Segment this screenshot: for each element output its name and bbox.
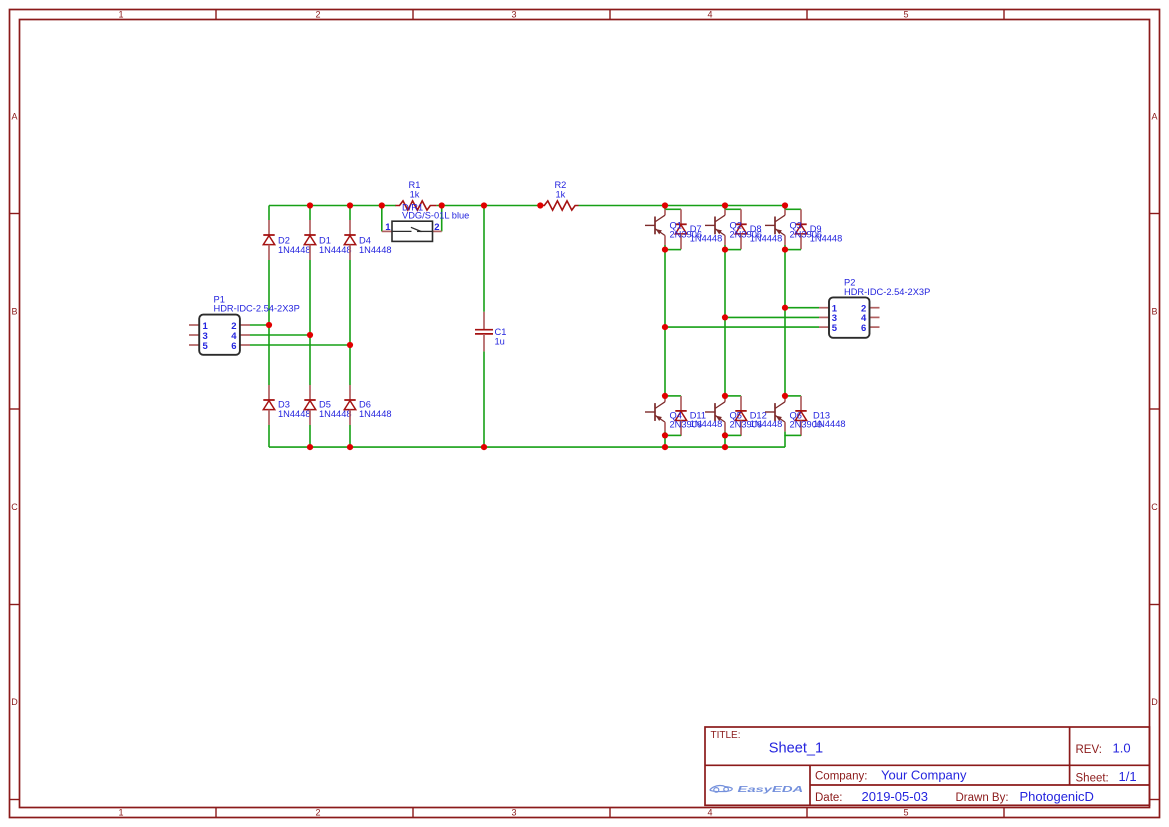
svg-text:1N4448: 1N4448: [319, 245, 352, 255]
junction bottom group bottom node column2: [722, 432, 728, 438]
junction top bus at switch right: [439, 202, 445, 208]
wire Q3 group top branch: [785, 208, 801, 210]
resistor R1 1k: [396, 201, 437, 210]
wire column2 to bottom bus: [724, 435, 726, 447]
junction bottom bus at column1: [662, 444, 668, 450]
label D13: [813, 411, 846, 429]
svg-text:EasyEDA: EasyEDA: [738, 784, 804, 794]
wire rail2 middle: [309, 260, 311, 385]
transistor Q6 2N3906: [765, 396, 785, 436]
wire rail2 lower: [309, 425, 311, 447]
svg-text:TITLE:: TITLE:: [711, 730, 741, 741]
label D11: [690, 411, 723, 429]
svg-text:HDR-IDC-2.54-2X3P: HDR-IDC-2.54-2X3P: [214, 303, 300, 313]
junction top bus at column2: [722, 202, 728, 208]
wire P2 pin3 to column2: [725, 316, 819, 318]
wire Q2 group bottom branch: [725, 249, 741, 251]
wire top bus left segment: [269, 205, 396, 207]
svg-text:5: 5: [903, 10, 908, 20]
svg-text:6: 6: [231, 341, 236, 352]
diode D1 1N4448: [304, 220, 315, 260]
label C1: [495, 327, 507, 346]
junction top bus at rail3: [347, 202, 353, 208]
svg-text:1N4448: 1N4448: [750, 419, 783, 429]
wire mid vertical column1: [664, 250, 666, 396]
transistor Q5 2N3906: [705, 396, 725, 436]
junction bottom group top node x785: [782, 393, 788, 399]
svg-text:B: B: [11, 307, 17, 317]
diode D12 1N4448: [735, 396, 746, 436]
svg-text:Your Company: Your Company: [881, 768, 967, 783]
label D7: [690, 224, 723, 243]
diode D5 1N4448: [304, 385, 315, 425]
wire Q3 group top stub: [784, 206, 786, 210]
svg-text:3: 3: [511, 10, 516, 20]
diode D3 1N4448: [263, 385, 274, 425]
ruler ticks left edge: [10, 214, 20, 800]
label D6: [359, 400, 392, 419]
wire Q1 group top branch: [665, 208, 681, 210]
svg-text:1N4448: 1N4448: [810, 233, 843, 243]
ruler ticks bottom edge: [216, 808, 1004, 818]
diode D11 1N4448: [675, 396, 686, 436]
svg-text:1/1: 1/1: [1119, 769, 1137, 784]
label D9: [810, 224, 843, 243]
junction P2 pin3 column2: [722, 314, 728, 320]
ruler ticks top edge: [216, 10, 1004, 20]
wire Q6 group bottom branch: [785, 434, 801, 436]
wire rail1 upper: [268, 206, 270, 221]
label Q3: [790, 220, 823, 239]
label D1: [319, 236, 352, 255]
wire top bus right segment: [579, 205, 786, 207]
label Q4: [670, 411, 703, 430]
junction top group bottom node x785: [782, 247, 788, 253]
label R1: [409, 180, 421, 199]
diode D9 1N4448: [795, 209, 806, 249]
wire rail3 upper: [349, 206, 351, 221]
junction bottom bus at column2: [722, 444, 728, 450]
wire Q5 group bottom branch: [725, 434, 741, 436]
svg-text:Sheet_1: Sheet_1: [769, 741, 823, 757]
svg-text:Date:: Date:: [815, 792, 843, 804]
switch D/R1 VDG/S-01L blue: [382, 221, 442, 241]
wire Q3 group bottom branch: [785, 249, 801, 251]
wire Q4 group top branch: [665, 395, 681, 397]
wire P1 pin6 to rail3: [250, 344, 350, 346]
label Q2: [730, 220, 763, 239]
wire P2 pin1 to column3: [785, 307, 819, 309]
wire Q2 group top branch: [725, 208, 741, 210]
wire P2 pin5 to column1: [665, 326, 819, 328]
svg-text:Company:: Company:: [815, 771, 867, 783]
transistor Q1 2N3906: [645, 209, 665, 249]
svg-text:1: 1: [118, 808, 123, 818]
svg-text:1u: 1u: [495, 336, 505, 346]
svg-text:1k: 1k: [555, 189, 565, 199]
junction top bus at switch left: [379, 202, 385, 208]
wire switch branch right drop: [441, 206, 443, 232]
svg-text:VDG/S-01L blue: VDG/S-01L blue: [402, 211, 469, 221]
wire bottom bus: [269, 446, 785, 448]
svg-text:1: 1: [118, 10, 123, 20]
diode D2 1N4448: [263, 220, 274, 260]
svg-text:C: C: [1151, 502, 1158, 512]
title block frame: [705, 727, 1150, 805]
svg-text:PhotogenicD: PhotogenicD: [1020, 789, 1094, 804]
svg-text:B: B: [1151, 307, 1157, 317]
svg-text:1N4448: 1N4448: [278, 245, 311, 255]
junction top bus at R2 pin1: [537, 202, 543, 208]
svg-text:4: 4: [707, 10, 712, 20]
svg-text:A: A: [1151, 112, 1157, 122]
wire Q6 group top branch: [785, 395, 801, 397]
junction top bus at rail2: [307, 202, 313, 208]
svg-text:Sheet:: Sheet:: [1076, 773, 1109, 785]
svg-text:Drawn By:: Drawn By:: [956, 792, 1009, 804]
junction top group bottom node x665: [662, 247, 668, 253]
junction bottom bus at rail2: [307, 444, 313, 450]
wire rail3 lower: [349, 425, 351, 447]
label D2: [278, 236, 311, 255]
ruler column numbers bottom: [118, 808, 908, 818]
svg-text:5: 5: [832, 323, 838, 334]
svg-text:2: 2: [434, 222, 439, 233]
junction bottom bus at C1: [481, 444, 487, 450]
wire P1 pin2 to rail1: [250, 324, 269, 326]
diode D4 1N4448: [344, 220, 355, 260]
wire Q1 group bottom branch: [665, 249, 681, 251]
P1 pin numbers: [203, 321, 238, 352]
svg-text:HDR-IDC-2.54-2X3P: HDR-IDC-2.54-2X3P: [844, 287, 930, 297]
svg-text:1N4448: 1N4448: [750, 233, 783, 243]
wire mid vertical column3: [784, 250, 786, 396]
junction P1 pin6 rail3: [347, 342, 353, 348]
junction bottom group top node x665: [662, 393, 668, 399]
wire top bus middle segment: [437, 205, 541, 207]
svg-text:3: 3: [511, 808, 516, 818]
diode D7 1N4448: [675, 209, 686, 249]
label D12: [750, 411, 783, 429]
diode D13 1N4448: [795, 396, 806, 436]
ruler ticks right edge: [1150, 214, 1160, 800]
wire bottom bus right riser: [784, 435, 786, 447]
svg-text:D: D: [1151, 697, 1158, 707]
junction P2 pin5 column1: [662, 324, 668, 330]
label D4: [359, 236, 392, 255]
junction P1 pin2 rail1: [266, 322, 272, 328]
junction bottom bus at rail3: [347, 444, 353, 450]
wire switch branch left drop: [381, 206, 383, 232]
label Q5: [730, 411, 763, 430]
connector P2 HDR-IDC-2.54-2X3P: [819, 297, 880, 337]
junction P2 pin1 column3: [782, 305, 788, 311]
svg-text:5: 5: [903, 808, 908, 818]
diode D8 1N4448: [735, 209, 746, 249]
junction top group bottom node x725: [722, 247, 728, 253]
wire column1 to bottom bus: [664, 435, 666, 447]
junction P1 pin4 rail2: [307, 332, 313, 338]
svg-text:4: 4: [707, 808, 712, 818]
svg-text:1N4448: 1N4448: [359, 245, 392, 255]
wire rail1 middle: [268, 260, 270, 385]
svg-text:1k: 1k: [410, 189, 420, 199]
wire Q1 group top stub: [664, 206, 666, 210]
svg-text:1N4448: 1N4448: [813, 419, 846, 429]
svg-text:2: 2: [315, 808, 320, 818]
wire C1 bottom drop: [483, 351, 485, 447]
junction bottom group bottom node column1: [662, 432, 668, 438]
junction bottom group top node x725: [722, 393, 728, 399]
wire Q4 group bottom branch: [665, 434, 681, 436]
wire Q2 group top stub: [724, 206, 726, 210]
wire rail3 middle: [349, 260, 351, 385]
resistor R2 1k: [540, 201, 578, 210]
EasyEDA logo: [710, 784, 803, 794]
wire rail1 lower: [268, 425, 270, 447]
wire rail2 upper: [309, 206, 311, 221]
transistor Q4 2N3906: [645, 396, 665, 436]
svg-text:1N4448: 1N4448: [690, 419, 723, 429]
svg-text:1: 1: [385, 222, 391, 233]
label Q1: [670, 220, 703, 239]
junction top bus at C1: [481, 202, 487, 208]
wire C1 top drop: [483, 206, 485, 312]
transistor Q3 2N3906: [765, 209, 785, 249]
ruler row letters right: [1151, 112, 1158, 708]
P2 pin numbers: [832, 304, 867, 334]
capacitor C1 1u: [475, 312, 493, 352]
label D5: [319, 400, 352, 419]
svg-text:C: C: [11, 502, 18, 512]
svg-text:REV:: REV:: [1076, 744, 1102, 756]
svg-text:1N4448: 1N4448: [359, 409, 392, 419]
svg-text:D: D: [11, 697, 18, 707]
label R2: [554, 180, 566, 199]
label Q6: [790, 411, 823, 430]
wire mid vertical column2: [724, 250, 726, 396]
ruler row letters left: [11, 112, 18, 708]
svg-text:1N4448: 1N4448: [690, 233, 723, 243]
svg-text:1.0: 1.0: [1113, 741, 1131, 756]
junction top bus at column3: [782, 202, 788, 208]
svg-text:6: 6: [861, 323, 866, 334]
connector P1 HDR-IDC-2.54-2X3P: [189, 315, 250, 355]
junction top bus at column1: [662, 202, 668, 208]
transistor Q2 2N3906: [705, 209, 725, 249]
svg-text:2: 2: [315, 10, 320, 20]
ruler column numbers top: [118, 10, 908, 20]
svg-text:5: 5: [203, 341, 209, 352]
label D3: [278, 400, 311, 419]
svg-text:2019-05-03: 2019-05-03: [862, 789, 929, 804]
label D8: [750, 224, 783, 243]
diode D6 1N4448: [344, 385, 355, 425]
svg-text:A: A: [11, 112, 17, 122]
wire Q5 group top branch: [725, 395, 741, 397]
wire P1 pin4 to rail2: [250, 334, 310, 336]
